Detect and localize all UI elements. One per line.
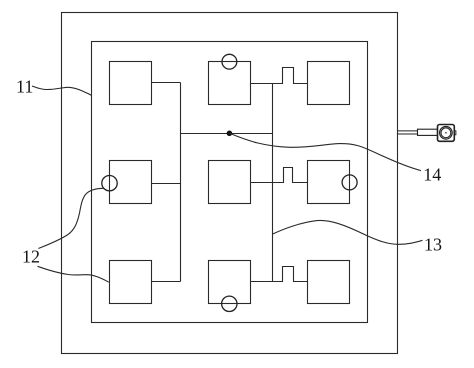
svg-text:12: 12: [22, 246, 40, 266]
svg-text:14: 14: [423, 164, 441, 184]
svg-text:11: 11: [16, 77, 33, 97]
svg-text:13: 13: [424, 234, 442, 254]
